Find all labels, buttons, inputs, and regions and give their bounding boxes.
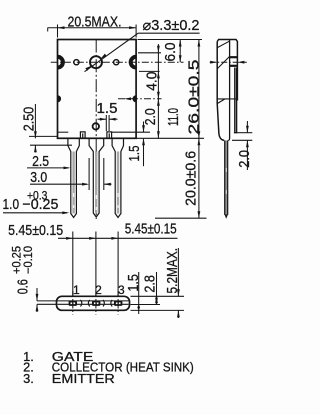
dimension 5.2MAX (bottom view)	[177, 248, 179, 296]
side view bottom curve right	[228, 139, 229, 140]
right edge notch	[133, 95, 137, 102]
svg-text:2: 2	[95, 283, 102, 297]
dimension 20.5MAX extension lines	[57, 25, 59, 38]
svg-text:3.0: 3.0	[30, 170, 47, 186]
side view hole section	[218, 57, 230, 69]
left edge half-hole	[58, 55, 65, 70]
extension line body bottom to left	[29, 135, 57, 137]
tab section arcs pair 2	[103, 300, 104, 307]
dimension 4.0 / 11.0 shared dimension line	[157, 44, 159, 138]
leader line for hole diameter label	[85, 33, 139, 71]
right edge half-hole	[129, 55, 136, 70]
svg-text:EMITTER: EMITTER	[52, 371, 115, 386]
svg-text:5.2MAX.: 5.2MAX.	[165, 248, 181, 294]
svg-text:2.8: 2.8	[143, 275, 159, 293]
bottom view extension lines right	[131, 295, 185, 297]
extension line body bottom to right	[136, 137, 204, 139]
lead 2	[89, 138, 104, 217]
bottom view pin 2	[92, 301, 100, 306]
svg-text:−0.10: −0.10	[23, 246, 35, 274]
svg-text:2.0: 2.0	[143, 108, 159, 125]
extension line top edge to 26.0	[138, 39, 203, 41]
dimension 2.0 (tab height)	[112, 131, 150, 133]
svg-text:5.45±0.15: 5.45±0.15	[8, 223, 63, 239]
bottom view pin 1	[69, 301, 77, 306]
dimension line 20.5MAX	[48, 26, 137, 31]
bottom view pin 3	[114, 301, 122, 306]
bottom edge tab 1	[80, 132, 85, 138]
svg-text:1.0: 1.0	[3, 197, 20, 213]
arrow on notch centerline	[124, 97, 131, 100]
dimension 1.5 (bottom view)	[138, 272, 140, 314]
side view lead	[224, 140, 228, 218]
extension line shoulder bottom to left	[30, 144, 72, 146]
side view outline	[217, 40, 237, 141]
svg-text:1: 1	[73, 283, 80, 297]
svg-text:0.6: 0.6	[16, 279, 32, 294]
svg-text:⌀3.3±0.2: ⌀3.3±0.2	[143, 18, 200, 34]
svg-text:20.0±0.6: 20.0±0.6	[184, 151, 200, 206]
bottom view body	[57, 296, 130, 310]
pin list	[23, 349, 194, 386]
svg-text:3: 3	[118, 283, 125, 297]
bottom edge tab 2	[107, 132, 112, 138]
dimension 2.0 (side view)	[237, 132, 253, 134]
horizontal centerline through upper holes	[51, 61, 184, 63]
svg-text:2.50: 2.50	[22, 107, 38, 132]
svg-text:1.5: 1.5	[127, 146, 143, 162]
svg-text:20.5MAX.: 20.5MAX.	[68, 15, 122, 31]
front view body	[58, 40, 137, 139]
small hole 1.5	[93, 123, 99, 129]
bottom view pin centerlines	[72, 291, 74, 315]
svg-text:26.0±0.5: 26.0±0.5	[186, 60, 202, 135]
side view hole centerline	[210, 61, 247, 63]
svg-text:4.0: 4.0	[145, 72, 161, 91]
svg-text:2.0: 2.0	[237, 150, 253, 168]
svg-text:1.5: 1.5	[97, 101, 118, 117]
dimension 6.0	[179, 40, 181, 63]
svg-text:11.0: 11.0	[166, 108, 182, 126]
svg-text:−0.25: −0.25	[22, 197, 58, 213]
svg-text:1.5: 1.5	[126, 274, 142, 292]
side view hole centerline arrows	[210, 61, 217, 64]
dimension 2.8 (bottom view)	[156, 272, 158, 305]
extension line y=71.4	[139, 70, 160, 72]
side view back tab	[234, 68, 237, 133]
pin extension lines to bottom view	[72, 232, 74, 297]
extension line y=52.8	[138, 52, 161, 54]
dimension 1.5 lines	[98, 118, 107, 120]
mounting hole (3.3mm)	[90, 56, 102, 68]
side view top bevel slant	[218, 41, 230, 47]
svg-text:6.0: 6.0	[163, 43, 179, 62]
dimension 2.50	[34, 104, 36, 138]
svg-text:+0.25: +0.25	[12, 246, 24, 274]
lead 3	[112, 138, 123, 217]
dimension 26.0	[198, 40, 200, 139]
small hole left	[74, 60, 79, 65]
small hole right	[114, 60, 119, 65]
svg-text:5.45±0.15: 5.45±0.15	[125, 221, 177, 237]
side notch centerline	[118, 98, 162, 100]
tab section arcs pair 1	[81, 300, 82, 307]
lead 1	[68, 138, 79, 217]
left edge notch	[58, 95, 62, 102]
dimension line 5.45 pitch	[58, 237, 178, 239]
dimension 20.0	[198, 138, 200, 218]
side view inner face line	[229, 40, 231, 139]
lead centerline white dashes	[73, 193, 119, 210]
extension line lead tips	[155, 217, 207, 219]
side view notch	[217, 98, 236, 100]
dimension 0.6 lead thickness	[37, 300, 57, 302]
vertical center axis	[95, 40, 97, 220]
bottom view seam lines	[58, 300, 129, 302]
svg-text:3.: 3.	[23, 371, 34, 386]
